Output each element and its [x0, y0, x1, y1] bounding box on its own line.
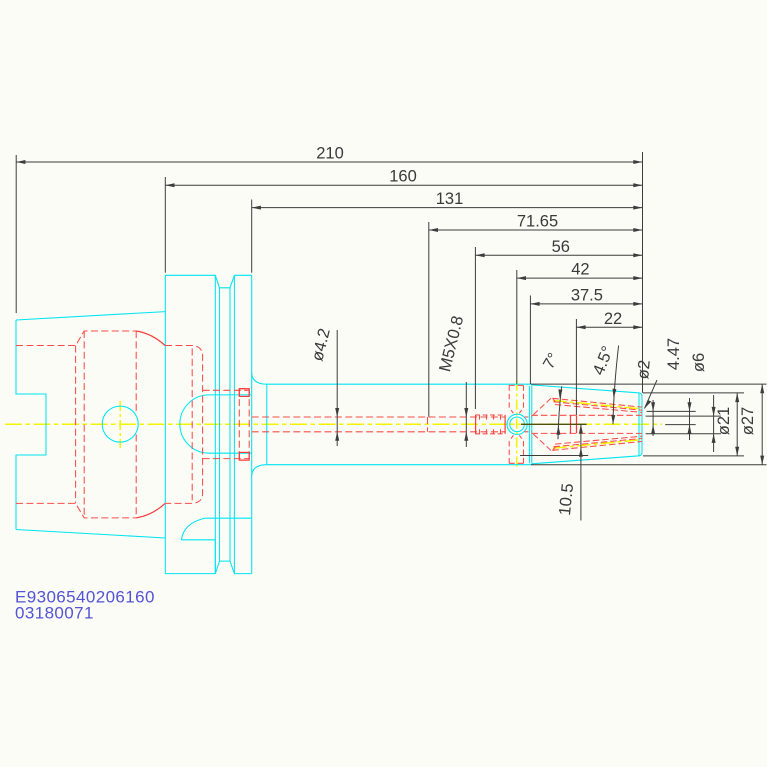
hidden thread M5 section [475, 415, 505, 434]
hidden collet back taper lower [533, 434, 555, 451]
dimension 131 [252, 190, 643, 273]
svg-text:160: 160 [389, 168, 417, 186]
flange outline bottom with V-groove and drive slot [165, 518, 251, 573]
dimension dia 27 [531, 384, 767, 465]
retention cap top [239, 389, 249, 397]
hidden cavity right wall [135, 331, 137, 518]
wire: yellow vertical centerline of taper hole [119, 401, 121, 448]
hidden cavity outer line bottom [16, 503, 136, 518]
dimension 7 degrees [540, 350, 562, 439]
hidden cavity left walls [76, 331, 85, 518]
dimension 71.65 [429, 213, 643, 417]
hidden transition arc top [136, 331, 165, 346]
fillet flange to shaft [252, 373, 267, 475]
dimension 10.5 depth [520, 424, 588, 520]
dimension 22 [576, 310, 642, 415]
flange gauge face [164, 275, 166, 573]
dimension dia 4.2 [308, 327, 339, 446]
svg-text:M5X0.8: M5X0.8 [436, 314, 467, 374]
hidden collet back taper upper [533, 398, 555, 415]
hidden retention bore rectangle [239, 389, 249, 460]
retention cap bottom [239, 452, 249, 460]
hidden transition arc bottom [136, 503, 165, 518]
svg-text:ø4.2: ø4.2 [308, 327, 333, 363]
shaft body ø27 [267, 384, 532, 465]
hidden flange bore lines [165, 346, 203, 504]
dimension 4.47 [647, 338, 696, 440]
dimension 42 [517, 261, 643, 384]
taper hole circle [102, 406, 138, 442]
hidden collet bore ø6 [531, 415, 642, 433]
svg-text:131: 131 [436, 190, 464, 208]
svg-text:03180071: 03180071 [15, 604, 94, 623]
svg-text:ø6: ø6 [690, 353, 708, 372]
hidden screw recess lower [509, 435, 523, 463]
shared right extension line [642, 152, 644, 393]
svg-text:ø2: ø2 [634, 359, 654, 380]
svg-text:10.5: 10.5 [556, 483, 577, 517]
dimension 4.5 degrees [589, 344, 618, 425]
collet bore bottom marker [571, 415, 577, 433]
HSK taper shank outline [16, 312, 165, 538]
flange rear face [251, 275, 253, 573]
svg-text:42: 42 [571, 261, 589, 279]
wire: yellow collet slot line lower [553, 440, 642, 449]
hidden dome bore lines [203, 390, 250, 458]
dimension dia 21 [643, 393, 744, 456]
hidden collet cone lower lines [552, 436, 642, 450]
svg-text:7°: 7° [540, 350, 562, 372]
hidden coolant bore stub at step [525, 417, 532, 432]
hidden coolant bore ø4.2 [252, 417, 506, 432]
svg-text:4.47: 4.47 [665, 338, 683, 370]
dimension M5X0.8 [436, 314, 468, 447]
svg-text:ø21: ø21 [715, 407, 733, 435]
nose tip inner edge [638, 393, 640, 456]
bore capsule in flange [180, 395, 252, 453]
svg-text:56: 56 [552, 238, 570, 256]
flange groove edge lines [215, 275, 234, 573]
flange outline top with V-groove [165, 275, 251, 288]
dimension 210 [16, 145, 642, 314]
wire: yellow collet slot line upper [553, 400, 642, 409]
svg-text:22: 22 [604, 310, 622, 328]
svg-text:210: 210 [316, 145, 344, 163]
hidden screw recess upper [509, 385, 523, 413]
dimension 56 [475, 238, 642, 409]
dimension dia 6 [646, 353, 721, 452]
hidden collet cone upper lines [552, 398, 642, 412]
nose cone outline [531, 385, 642, 464]
coolant screw circles [507, 414, 527, 434]
wire: yellow vertical centerline of coolant screw [516, 381, 518, 470]
nose step face [529, 386, 531, 463]
wire: yellow main centerline [5, 423, 662, 425]
svg-text:ø27: ø27 [739, 407, 757, 435]
dimension dia 2 leader [634, 359, 657, 436]
dimension 37.5 [530, 286, 642, 384]
svg-text:71.65: 71.65 [517, 213, 558, 231]
svg-text:4.5°: 4.5° [589, 344, 617, 378]
svg-text:37.5: 37.5 [571, 286, 603, 304]
dimension 160 [165, 168, 642, 273]
hidden cavity outer line top [16, 331, 136, 346]
